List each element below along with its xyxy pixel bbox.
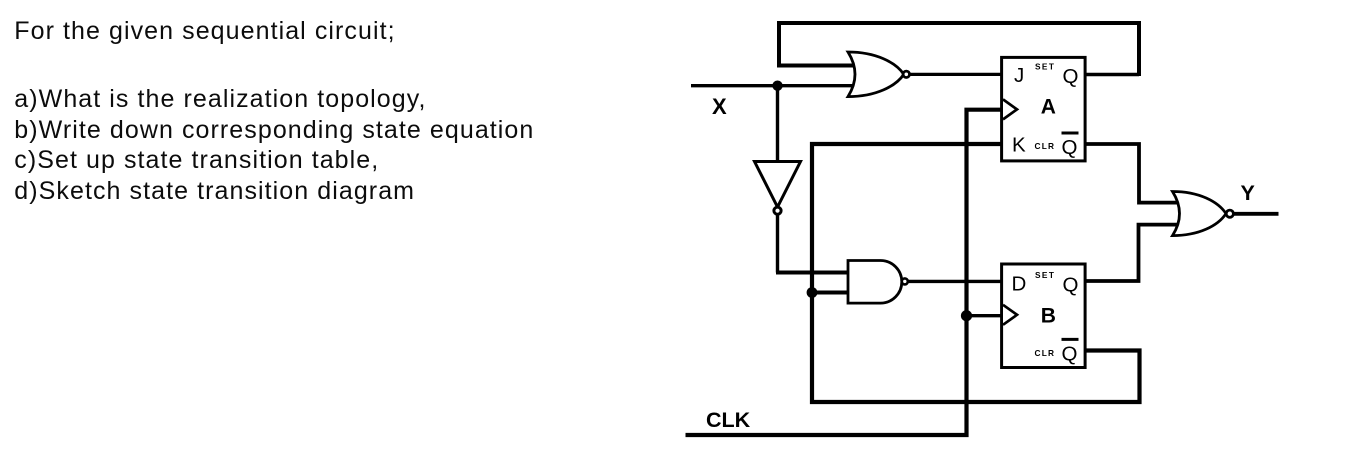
svg-text:Q: Q (1063, 274, 1079, 297)
question heading text (14, 16, 395, 47)
svg-text:B: B (1041, 304, 1056, 327)
svg-text:Q: Q (1062, 343, 1078, 366)
wire X to inverter (776, 86, 779, 162)
svg-text:Q: Q (1062, 136, 1078, 159)
wire feedback A.Q top loop (779, 23, 1139, 76)
wire NAND output to D (907, 280, 1002, 283)
node X junction (772, 81, 782, 91)
nor gate G1 body (848, 52, 904, 97)
wire inverter output down (776, 214, 779, 273)
wire inverter to NAND top input (776, 271, 848, 275)
svg-text:CLK: CLK (706, 408, 751, 432)
nand gate G3 bubble (902, 278, 908, 284)
svg-text:A: A (1041, 95, 1056, 118)
flip-flop A clock triangle (1003, 99, 1017, 119)
nor gate G1 bubble (903, 71, 909, 77)
node CLK junction (961, 310, 972, 321)
wire A.Q output (1085, 73, 1139, 77)
wire CLK net (686, 110, 1002, 435)
inverter G2 body (755, 162, 801, 208)
question list text (14, 84, 534, 207)
svg-text:K: K (1012, 134, 1026, 157)
svg-text:CLR: CLR (1035, 348, 1056, 358)
flip-flop B clock triangle (1003, 305, 1017, 325)
wire NAND bottom input (812, 291, 848, 295)
nand gate G3 body (848, 261, 902, 304)
nor gate G4 (Y) body (1173, 192, 1227, 236)
wire B.Q to OR2 bottom input (1085, 225, 1181, 281)
inverter G2 bubble (774, 207, 781, 214)
svg-text:Q: Q (1063, 65, 1079, 88)
flip-flop A Qbar overline (1062, 132, 1079, 135)
flip-flop A box (1002, 57, 1086, 160)
nor gate G4 bubble (1226, 210, 1233, 217)
wire NOR1 top input (777, 64, 862, 68)
svg-text:SET: SET (1035, 62, 1055, 72)
wire B.Qbar feedback to K (812, 144, 1140, 402)
flip-flop B Qbar overline (1062, 338, 1079, 341)
svg-text:X: X (712, 94, 727, 119)
wire Y output (1233, 212, 1279, 216)
wire X input (691, 84, 862, 87)
wire A.Qbar to OR2 top input (1085, 144, 1181, 203)
svg-text:J: J (1014, 64, 1024, 87)
wire NOR1 output to J (906, 73, 1002, 76)
node NAND input junction (807, 287, 818, 298)
flip-flop B box (1002, 264, 1086, 368)
svg-text:CLR: CLR (1035, 141, 1056, 151)
svg-text:D: D (1012, 273, 1027, 296)
wire B clock stub (967, 314, 1002, 317)
svg-text:SET: SET (1035, 270, 1055, 280)
svg-text:Y: Y (1241, 181, 1255, 205)
